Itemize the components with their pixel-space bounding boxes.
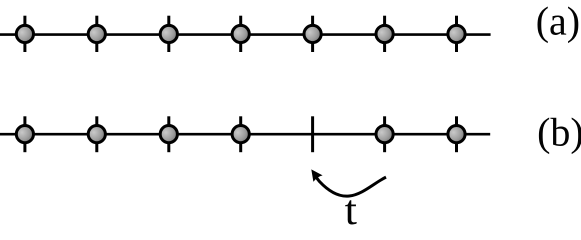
site a6 (atom + tick) <box>376 16 393 52</box>
site a5 (atom + tick) <box>304 16 321 52</box>
hopping arrow (curved, pointing to vacancy) <box>311 169 386 196</box>
site a7 (atom + tick) <box>448 16 465 52</box>
svg-text:(b): (b) <box>537 110 581 155</box>
site b1 (atom + tick) <box>16 116 33 152</box>
site a4 (atom + tick) <box>232 16 249 52</box>
site b7 (atom + tick) <box>448 116 465 152</box>
svg-text:t: t <box>345 188 358 234</box>
site b6 (atom + tick) <box>376 116 393 152</box>
wire: chain (a) horizontal line <box>0 33 491 36</box>
site b5 vacancy (tick only, hole site) <box>311 116 314 152</box>
wire: chain (b) horizontal line <box>0 133 490 136</box>
site a3 (atom + tick) <box>160 16 177 52</box>
svg-text:(a): (a) <box>536 0 580 43</box>
site b2 (atom + tick) <box>88 116 105 152</box>
site b4 (atom + tick) <box>232 116 249 152</box>
site a1 (atom + tick) <box>16 16 33 52</box>
site a2 (atom + tick) <box>88 16 105 52</box>
site b3 (atom + tick) <box>160 116 177 152</box>
